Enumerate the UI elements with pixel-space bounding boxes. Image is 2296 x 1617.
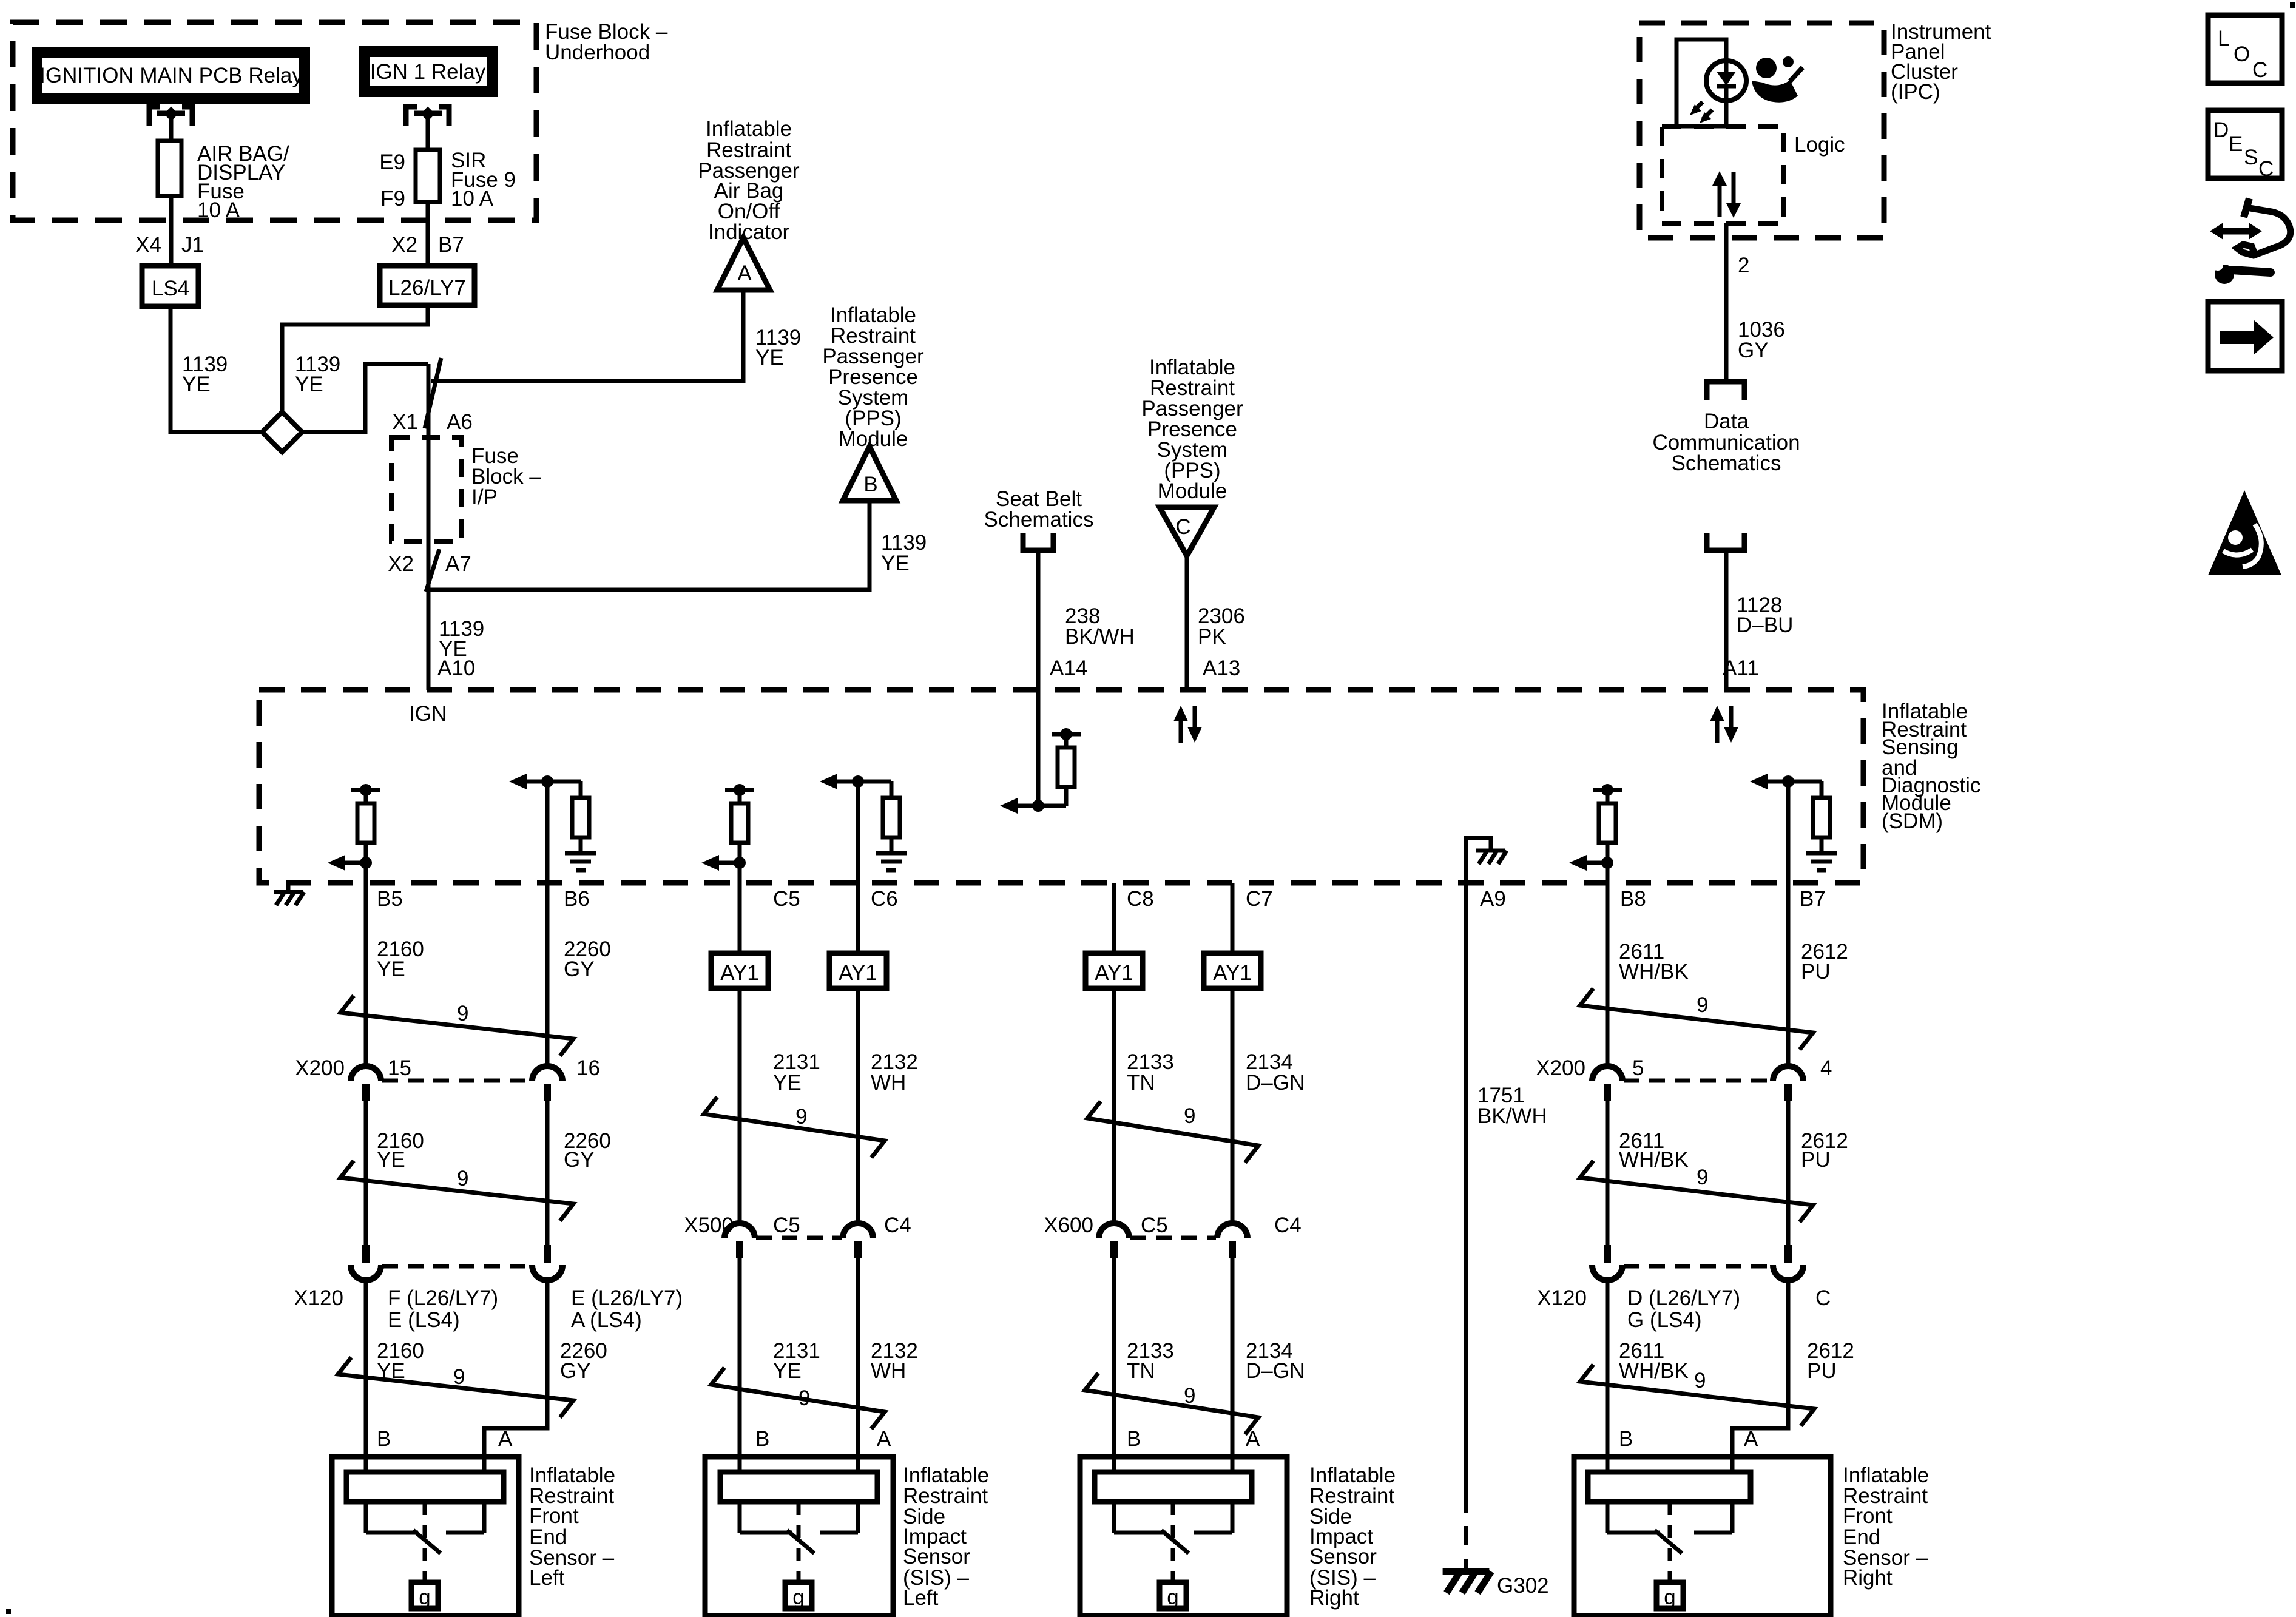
wire label 1036 GY bbox=[1738, 318, 1785, 362]
svg-text:A: A bbox=[498, 1427, 513, 1451]
side impact sensor left label bbox=[903, 1463, 989, 1610]
svg-text:A9: A9 bbox=[1480, 887, 1506, 911]
SDM dashed box bbox=[259, 690, 1863, 883]
indicator A label bbox=[698, 117, 800, 244]
svg-text:9: 9 bbox=[457, 1002, 468, 1025]
svg-text:D (L26/LY7): D (L26/LY7) bbox=[1627, 1286, 1740, 1310]
front end sensor right internals bbox=[1588, 1472, 1751, 1609]
svg-text:O: O bbox=[2234, 42, 2250, 66]
svg-text:B: B bbox=[1127, 1427, 1141, 1451]
svg-text:9: 9 bbox=[1694, 1369, 1706, 1393]
svg-text:X600: X600 bbox=[1044, 1214, 1093, 1237]
svg-text:PU: PU bbox=[1801, 1148, 1831, 1172]
svg-text:F9: F9 bbox=[380, 187, 405, 211]
svg-text:A: A bbox=[1246, 1427, 1260, 1451]
twisted pair mark B5/B6 middle bbox=[340, 1161, 573, 1221]
fuse F9 SIR Fuse 9 10A bbox=[379, 149, 516, 211]
wire B8 circuit 2611 bbox=[1606, 883, 1610, 1066]
LED lamp bbox=[1690, 61, 1746, 126]
wire B5 to X120 bbox=[364, 1101, 368, 1245]
wire label 1128 D-BU bbox=[1737, 593, 1793, 637]
connector X200 pin 15 bbox=[351, 1066, 381, 1101]
svg-text:Underhood: Underhood bbox=[545, 41, 650, 64]
svg-text:YE: YE bbox=[755, 346, 784, 370]
svg-text:A7: A7 bbox=[445, 552, 471, 576]
svg-text:9: 9 bbox=[1697, 1166, 1708, 1189]
wire relay K1 to fuse bbox=[169, 113, 174, 141]
connector X600 labels bbox=[1044, 1214, 1302, 1237]
connector X200 pin 5 bbox=[1592, 1066, 1622, 1101]
svg-text:g: g bbox=[1664, 1585, 1675, 1609]
wire B7 to X120 bbox=[1786, 1101, 1791, 1245]
svg-text:C: C bbox=[1815, 1286, 1831, 1310]
svg-text:X500: X500 bbox=[684, 1214, 734, 1237]
svg-text:C: C bbox=[2258, 157, 2274, 181]
wire C to A13 bbox=[1185, 556, 1189, 690]
air bag telltale icon bbox=[1752, 56, 1803, 103]
svg-text:Module: Module bbox=[839, 427, 908, 451]
svg-text:15: 15 bbox=[388, 1056, 411, 1080]
wire B5 circuit 2160 bbox=[364, 883, 368, 1066]
wire C7 circuit 2134 bbox=[1231, 883, 1235, 1223]
svg-text:9: 9 bbox=[1184, 1104, 1195, 1128]
wire C6 to sensor bbox=[856, 1258, 860, 1472]
svg-text:A13: A13 bbox=[1203, 657, 1240, 680]
svg-text:10 A: 10 A bbox=[197, 198, 240, 222]
SDM internal ground at A9 bbox=[1466, 838, 1507, 883]
svg-text:Right: Right bbox=[1843, 1566, 1893, 1590]
svg-text:C6: C6 bbox=[871, 887, 898, 911]
wire label 2612 PU lower bbox=[1807, 1339, 1854, 1383]
svg-text:9: 9 bbox=[1697, 993, 1708, 1017]
wire label 2160 YE lower bbox=[377, 1339, 424, 1383]
wire IPC pin 2 bbox=[1724, 223, 1729, 382]
off-page connector from data comm bbox=[1707, 533, 1744, 550]
svg-text:A: A bbox=[737, 262, 752, 285]
svg-text:X2: X2 bbox=[388, 552, 414, 576]
svg-text:X2: X2 bbox=[391, 233, 417, 257]
wire label 1139 YE at A bbox=[755, 326, 801, 370]
svg-text:GY: GY bbox=[564, 1148, 595, 1172]
connector X120 pin D/G bbox=[1592, 1245, 1622, 1280]
connector X600 pin C5 bbox=[1099, 1223, 1129, 1258]
wire label 2131 YE lower bbox=[773, 1339, 820, 1383]
svg-text:2: 2 bbox=[1738, 254, 1749, 277]
connector X2 pin A7 bbox=[388, 549, 471, 592]
connector X120 labels left bbox=[294, 1286, 683, 1332]
svg-text:X200: X200 bbox=[295, 1056, 345, 1080]
svg-text:Data: Data bbox=[1704, 410, 1749, 433]
wire B6 to sensor with jog bbox=[484, 1280, 547, 1472]
wire data comm to A11 bbox=[1724, 550, 1729, 690]
svg-text:YE: YE bbox=[377, 957, 405, 981]
SDM serial data arrows at A13 bbox=[1173, 706, 1202, 743]
connector X200 right mating line bbox=[1624, 1079, 1772, 1083]
svg-text:D–GN: D–GN bbox=[1246, 1359, 1305, 1383]
wire A9 dashed to G302 bbox=[1464, 1493, 1468, 1568]
svg-text:A10: A10 bbox=[437, 657, 475, 680]
wire branch to indicator A bbox=[431, 290, 743, 381]
twisted pair mark B5/B6 lower bbox=[338, 1357, 573, 1417]
connector X4 pin J1 bbox=[135, 233, 204, 257]
svg-text:GY: GY bbox=[1738, 339, 1769, 362]
SDM internal resistor with ground at C6 bbox=[820, 774, 907, 883]
svg-text:YE: YE bbox=[182, 373, 211, 396]
svg-text:F (L26/LY7): F (L26/LY7) bbox=[388, 1286, 498, 1310]
svg-text:C4: C4 bbox=[884, 1214, 911, 1237]
svg-text:10 A: 10 A bbox=[451, 187, 494, 211]
SDM internal resistor at C5 bbox=[701, 784, 754, 883]
wire label 2611 WH/BK bbox=[1619, 940, 1689, 984]
fuse block I/P label bbox=[471, 444, 541, 509]
svg-text:G (LS4): G (LS4) bbox=[1627, 1308, 1702, 1332]
svg-text:BK/WH: BK/WH bbox=[1065, 625, 1135, 649]
svg-text:A (LS4): A (LS4) bbox=[571, 1308, 642, 1332]
svg-text:E (L26/LY7): E (L26/LY7) bbox=[571, 1286, 683, 1310]
wire relay K2 to fuse bbox=[426, 113, 430, 150]
svg-text:AY1: AY1 bbox=[839, 961, 877, 985]
svg-text:WH: WH bbox=[871, 1359, 906, 1383]
svg-text:GY: GY bbox=[560, 1359, 591, 1383]
engine option tag LS4 bbox=[142, 266, 198, 306]
connector X120 right mating line bbox=[1624, 1264, 1772, 1269]
svg-text:A11: A11 bbox=[1723, 657, 1759, 680]
svg-text:X200: X200 bbox=[1536, 1056, 1585, 1080]
svg-text:Module: Module bbox=[1158, 479, 1227, 503]
svg-text:J1: J1 bbox=[181, 233, 204, 257]
twisted pair mark C5/C6 upper bbox=[704, 1097, 885, 1158]
svg-text:IGN 1 Relay: IGN 1 Relay bbox=[370, 60, 486, 84]
wire label 2134 D-GN lower bbox=[1246, 1339, 1305, 1383]
svg-text:E: E bbox=[2229, 132, 2243, 156]
icon diagnostic hand arrow bbox=[2210, 198, 2291, 284]
front end sensor left label bbox=[529, 1463, 615, 1590]
connector X200 labels bbox=[295, 1056, 600, 1080]
page artifact dot bottom left bbox=[6, 1609, 11, 1614]
wire B5 to sensor bbox=[364, 1280, 368, 1472]
connector X120 pin F/E bbox=[351, 1245, 381, 1280]
svg-text:PU: PU bbox=[1801, 960, 1831, 984]
seat belt schematics label bbox=[984, 487, 1094, 532]
wire label 2611 WH/BK lower bbox=[1619, 1339, 1689, 1383]
wire B7 to sensor with jog bbox=[1732, 1280, 1788, 1472]
svg-text:YE: YE bbox=[377, 1148, 405, 1172]
wire B6 to X120 bbox=[545, 1101, 550, 1245]
wire label 1139 YE right bbox=[295, 353, 340, 396]
fuse block underhood label bbox=[545, 20, 668, 64]
svg-text:Schematics: Schematics bbox=[984, 508, 1094, 532]
svg-text:16: 16 bbox=[576, 1056, 600, 1080]
svg-text:Logic: Logic bbox=[1794, 133, 1845, 157]
connector X200 mating line bbox=[382, 1079, 531, 1083]
svg-text:C5: C5 bbox=[773, 887, 800, 911]
twisted pair mark B8/B7 lower bbox=[1580, 1365, 1814, 1426]
wire B8 to sensor bbox=[1606, 1280, 1610, 1472]
svg-text:IGN: IGN bbox=[409, 702, 447, 726]
svg-text:Left: Left bbox=[529, 1566, 565, 1590]
wire label 2160 YE mid bbox=[377, 1129, 424, 1172]
wire label 2131 YE bbox=[773, 1050, 820, 1095]
connector X500 mating line bbox=[756, 1236, 842, 1240]
ground G302 bbox=[1443, 1571, 1549, 1598]
off-page triangle C PPS module bbox=[1160, 507, 1214, 556]
front end sensor left internals bbox=[346, 1472, 504, 1609]
wire C8 to sensor bbox=[1112, 1258, 1116, 1472]
svg-text:4: 4 bbox=[1820, 1056, 1832, 1080]
svg-text:A14: A14 bbox=[1050, 657, 1087, 680]
connector X120 pin C bbox=[1773, 1245, 1803, 1280]
side impact sensor right label bbox=[1309, 1463, 1396, 1610]
connector X120 pin E/A bbox=[532, 1245, 562, 1280]
wire B8 to X120 bbox=[1606, 1101, 1610, 1245]
SDM serial data arrows at A11 bbox=[1710, 706, 1738, 743]
svg-text:IGNITION MAIN PCB Relay: IGNITION MAIN PCB Relay bbox=[39, 64, 303, 87]
svg-text:Sensor: Sensor bbox=[1309, 1545, 1377, 1568]
wire label 2160 YE bbox=[377, 937, 424, 981]
svg-text:B7: B7 bbox=[438, 233, 464, 257]
relay K1 output terminal bbox=[149, 107, 192, 126]
wire label 1139 YE at B bbox=[881, 531, 927, 575]
svg-text:B7: B7 bbox=[1800, 887, 1826, 911]
icon SIR caution triangle bbox=[2208, 490, 2281, 575]
connector X2 pin B7 bbox=[391, 233, 464, 257]
page artifact mark top right bbox=[2290, 2, 2295, 8]
svg-text:X4: X4 bbox=[135, 233, 161, 257]
wire C6 circuit 2132 bbox=[856, 883, 860, 1223]
SDM label bbox=[1882, 700, 1980, 833]
svg-text:Sensor: Sensor bbox=[903, 1545, 970, 1568]
wire C5 to sensor bbox=[738, 1258, 742, 1472]
svg-text:C: C bbox=[2252, 58, 2267, 82]
wire seat belt to A14 bbox=[1036, 550, 1041, 690]
wire label 2133 TN lower bbox=[1127, 1339, 1174, 1383]
svg-text:L: L bbox=[2218, 27, 2229, 50]
svg-text:TN: TN bbox=[1127, 1359, 1155, 1383]
side impact sensor left internals bbox=[720, 1472, 877, 1609]
svg-text:L26/LY7: L26/LY7 bbox=[388, 276, 466, 300]
svg-text:WH: WH bbox=[871, 1071, 906, 1095]
wire label 2611 WH/BK mid bbox=[1619, 1129, 1689, 1172]
svg-text:X120: X120 bbox=[294, 1286, 343, 1310]
logic dashed box bbox=[1662, 126, 1784, 223]
svg-text:Schematics: Schematics bbox=[1672, 451, 1781, 475]
svg-text:TN: TN bbox=[1127, 1071, 1155, 1095]
twisted pair mark B8/B7 upper bbox=[1580, 988, 1813, 1050]
twisted pair mark B5/B6 upper bbox=[340, 996, 573, 1056]
svg-text:WH/BK: WH/BK bbox=[1619, 1359, 1689, 1383]
svg-text:AY1: AY1 bbox=[1095, 961, 1133, 985]
off-page triangle B PPS module bbox=[843, 447, 896, 501]
svg-text:PU: PU bbox=[1807, 1359, 1837, 1383]
connector X600 pin C4 bbox=[1217, 1223, 1248, 1258]
wire LS4 down to splice bbox=[171, 306, 262, 432]
svg-text:E9: E9 bbox=[379, 150, 405, 174]
svg-text:WH/BK: WH/BK bbox=[1619, 1148, 1689, 1172]
svg-text:YE: YE bbox=[773, 1359, 802, 1383]
harness marker AY1 on C5 bbox=[711, 953, 768, 988]
wire splice to fuse block I/P bbox=[302, 364, 428, 432]
connector X200 right labels bbox=[1536, 1056, 1832, 1080]
svg-text:GY: GY bbox=[564, 957, 595, 981]
wire label 238 BK/WH bbox=[1065, 604, 1135, 649]
svg-text:AY1: AY1 bbox=[720, 961, 759, 985]
wire label 1139 YE left bbox=[182, 353, 228, 396]
wire label 2306 PK bbox=[1198, 604, 1245, 649]
svg-text:D–BU: D–BU bbox=[1737, 613, 1793, 637]
svg-text:BK/WH: BK/WH bbox=[1477, 1104, 1547, 1128]
wire branch to PPS module B bbox=[428, 501, 869, 590]
svg-text:B: B bbox=[1619, 1427, 1633, 1451]
twisted pair mark C8/C7 lower bbox=[1085, 1373, 1258, 1434]
data communication schematics label bbox=[1652, 410, 1800, 475]
fuse block I/P dashed box bbox=[391, 437, 461, 541]
fuse block underhood dashed box bbox=[13, 22, 536, 220]
logic bidirectional arrows bbox=[1712, 171, 1741, 218]
svg-text:PK: PK bbox=[1198, 625, 1226, 649]
connector X600 mating line bbox=[1130, 1236, 1216, 1240]
svg-text:C4: C4 bbox=[1274, 1214, 1302, 1237]
svg-text:YE: YE bbox=[773, 1071, 802, 1095]
wire label 2260 GY mid bbox=[564, 1129, 611, 1172]
front end sensor right box bbox=[1574, 1457, 1831, 1616]
wire label 1139 YE at A10 bbox=[439, 617, 484, 661]
twisted pair mark C8/C7 upper bbox=[1087, 1101, 1258, 1163]
connector X120 right labels bbox=[1537, 1286, 1831, 1332]
wire L26/LY7 down to splice bbox=[282, 305, 428, 412]
connector X200 pin 16 bbox=[532, 1066, 562, 1101]
svg-text:C: C bbox=[1175, 515, 1190, 539]
svg-text:B5: B5 bbox=[377, 887, 403, 911]
svg-text:Front: Front bbox=[529, 1504, 579, 1528]
SDM internal resistor with ground at B6 bbox=[509, 774, 596, 883]
svg-text:A6: A6 bbox=[447, 410, 473, 434]
front end sensor left box bbox=[332, 1457, 519, 1616]
wire label 2132 WH bbox=[871, 1050, 918, 1095]
connector X500 pin C5 bbox=[724, 1223, 755, 1258]
svg-text:LS4: LS4 bbox=[152, 277, 189, 300]
wire C8 circuit 2133 bbox=[1112, 883, 1116, 1223]
svg-text:A: A bbox=[1744, 1427, 1758, 1451]
connector X500 labels bbox=[684, 1214, 911, 1237]
svg-text:(SDM): (SDM) bbox=[1882, 809, 1943, 833]
off-page triangle A air bag on/off indicator bbox=[717, 238, 770, 290]
PPS module C label bbox=[1141, 356, 1243, 503]
harness marker AY1 on C7 bbox=[1204, 953, 1261, 988]
wire label 2133 TN bbox=[1127, 1050, 1174, 1095]
harness marker AY1 on C6 bbox=[829, 953, 886, 988]
wire fuse F9 down bbox=[426, 202, 430, 266]
svg-text:E (LS4): E (LS4) bbox=[388, 1308, 460, 1332]
SDM internal resistor with ground at B7 bbox=[1750, 774, 1837, 883]
svg-text:C5: C5 bbox=[1141, 1214, 1168, 1237]
air bag indicator LED loop bbox=[1676, 39, 1726, 126]
relay K2 IGN 1 Relay bbox=[364, 52, 492, 92]
svg-text:X120: X120 bbox=[1537, 1286, 1587, 1310]
svg-text:X1: X1 bbox=[392, 410, 418, 434]
connector X200 pin 4 bbox=[1773, 1066, 1803, 1101]
wire label 2260 GY lower bbox=[560, 1339, 607, 1383]
svg-text:S: S bbox=[2244, 146, 2258, 169]
icon LOC box bbox=[2208, 15, 2282, 83]
connector X500 pin C4 bbox=[843, 1223, 873, 1258]
svg-text:B: B bbox=[755, 1427, 769, 1451]
SDM case ground bbox=[274, 883, 304, 905]
svg-text:YE: YE bbox=[881, 552, 910, 575]
engine option tag L26/LY7 bbox=[380, 266, 474, 305]
wire label 2134 D-GN bbox=[1246, 1050, 1305, 1095]
svg-text:9: 9 bbox=[453, 1365, 465, 1389]
connector X120 mating line bbox=[382, 1264, 531, 1269]
svg-text:9: 9 bbox=[1184, 1384, 1195, 1408]
twisted pair mark B8/B7 middle bbox=[1580, 1161, 1813, 1222]
fuse F1 AIR BAG/DISPLAY 10A bbox=[158, 141, 289, 222]
icon forward arrow box bbox=[2208, 302, 2282, 371]
side impact sensor right internals bbox=[1095, 1472, 1252, 1609]
svg-text:B: B bbox=[377, 1427, 391, 1451]
connector X1 pin A6 bbox=[392, 358, 473, 434]
svg-text:Inflatable: Inflatable bbox=[706, 117, 792, 141]
wire label 1751 BK/WH bbox=[1477, 1084, 1547, 1128]
wire B6 circuit 2260 bbox=[545, 883, 550, 1066]
svg-text:5: 5 bbox=[1632, 1056, 1644, 1080]
svg-text:Right: Right bbox=[1309, 1586, 1359, 1610]
wire C7 to sensor bbox=[1231, 1258, 1235, 1472]
svg-text:B: B bbox=[863, 473, 877, 496]
svg-text:Indicator: Indicator bbox=[708, 220, 790, 244]
svg-text:WH/BK: WH/BK bbox=[1619, 960, 1689, 984]
wire fuse F1 down bbox=[169, 196, 174, 266]
svg-text:D–GN: D–GN bbox=[1246, 1071, 1305, 1095]
wire label 2612 PU mid bbox=[1801, 1129, 1848, 1172]
splice S1 diamond bbox=[262, 412, 302, 452]
svg-text:9: 9 bbox=[799, 1386, 810, 1410]
front end sensor right label bbox=[1843, 1463, 1929, 1590]
twisted pair mark C5/C6 lower bbox=[711, 1368, 885, 1429]
side impact sensor left box bbox=[705, 1457, 893, 1616]
side impact sensor right box bbox=[1080, 1457, 1287, 1616]
svg-text:D: D bbox=[2213, 118, 2229, 142]
SDM internal resistor at B5 bbox=[328, 784, 380, 883]
svg-text:C5: C5 bbox=[773, 1214, 800, 1237]
svg-text:AY1: AY1 bbox=[1213, 961, 1252, 985]
off-page connector to data comm bbox=[1707, 382, 1744, 400]
wire label 2260 GY bbox=[564, 937, 611, 981]
off-page connector seat belt bbox=[1023, 533, 1053, 550]
svg-text:A: A bbox=[877, 1427, 891, 1451]
svg-text:B8: B8 bbox=[1620, 887, 1646, 911]
relay K2 output terminal bbox=[406, 107, 449, 126]
svg-text:(IPC): (IPC) bbox=[1891, 80, 1940, 104]
wire label 2132 WH lower bbox=[871, 1339, 918, 1383]
wire C5 circuit 2131 bbox=[738, 883, 742, 1223]
SDM internal resistor at B8 bbox=[1569, 784, 1622, 883]
harness marker AY1 on C8 bbox=[1086, 953, 1143, 988]
SDM internal resistor at A14 input bbox=[1000, 690, 1081, 814]
svg-text:9: 9 bbox=[795, 1105, 807, 1129]
wire label 2612 PU bbox=[1801, 940, 1848, 984]
wire B7 circuit 2612 bbox=[1786, 883, 1791, 1066]
svg-text:9: 9 bbox=[457, 1167, 468, 1190]
icon DESC box bbox=[2208, 110, 2282, 181]
svg-text:Front: Front bbox=[1843, 1504, 1893, 1528]
wire A9 circuit 1751 solid bbox=[1464, 883, 1468, 1493]
svg-text:Left: Left bbox=[903, 1586, 939, 1610]
svg-text:B6: B6 bbox=[564, 887, 590, 911]
IPC label bbox=[1891, 20, 1991, 104]
relay K1 IGNITION MAIN PCB Relay bbox=[37, 53, 305, 98]
svg-text:C7: C7 bbox=[1246, 887, 1273, 911]
svg-text:G302: G302 bbox=[1497, 1574, 1549, 1598]
